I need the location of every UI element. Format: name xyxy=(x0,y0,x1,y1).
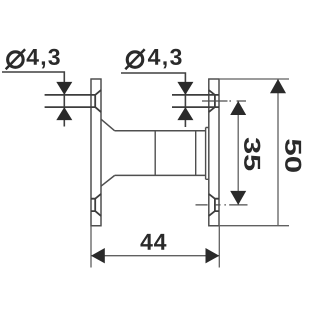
body left taper bottom xyxy=(101,175,115,186)
arrow dia4,3 right up xyxy=(177,107,193,120)
arrow 35 down xyxy=(230,191,246,205)
collar boss at right flange xyxy=(206,128,209,180)
leader line dia 4,3 left xyxy=(2,72,64,127)
arrow 50 up xyxy=(270,79,286,93)
dimension line 50 xyxy=(277,79,279,226)
label dia 4,3 left: diameter symbol xyxy=(6,49,25,69)
extension line 44 right xyxy=(218,226,220,268)
label 50 (rotated) xyxy=(285,139,301,172)
left flange plate xyxy=(90,79,101,226)
label dia 4,3 right: text 4,3 xyxy=(148,49,182,69)
body internal edge right xyxy=(195,131,197,176)
arrow dia4,3 left down xyxy=(56,82,72,95)
dimension line 35 xyxy=(237,101,239,205)
arrow dia4,3 left up xyxy=(56,107,72,120)
arrow 35 up xyxy=(230,101,246,115)
label dia 4,3 right: diameter symbol xyxy=(125,49,144,69)
body left taper top xyxy=(101,119,115,131)
right flange bottom countersunk hole xyxy=(209,194,219,216)
centerline bottom right hole xyxy=(196,204,248,206)
right flange top countersunk hole xyxy=(172,90,219,112)
label 44 xyxy=(140,234,166,250)
arrow dia4,3 right down xyxy=(177,82,193,95)
leader line dia 4,3 right xyxy=(121,73,185,127)
left flange bottom countersunk hole xyxy=(91,194,101,216)
centerline top right hole xyxy=(202,100,246,102)
extension line 50 bottom xyxy=(220,225,289,227)
extension line 44 left xyxy=(90,226,92,268)
dimension line 44 xyxy=(91,255,219,257)
extension line 50 top xyxy=(220,78,289,80)
label dia 4,3 left: text 4,3 xyxy=(27,49,60,69)
left flange top countersunk hole xyxy=(45,90,101,112)
label 35 (rotated) xyxy=(244,138,260,170)
arrow 44 left xyxy=(91,248,105,263)
arrow 44 right xyxy=(206,248,220,263)
right flange plate xyxy=(208,79,220,226)
body internal edge mid xyxy=(154,131,156,176)
body cylinder outline xyxy=(115,131,206,176)
